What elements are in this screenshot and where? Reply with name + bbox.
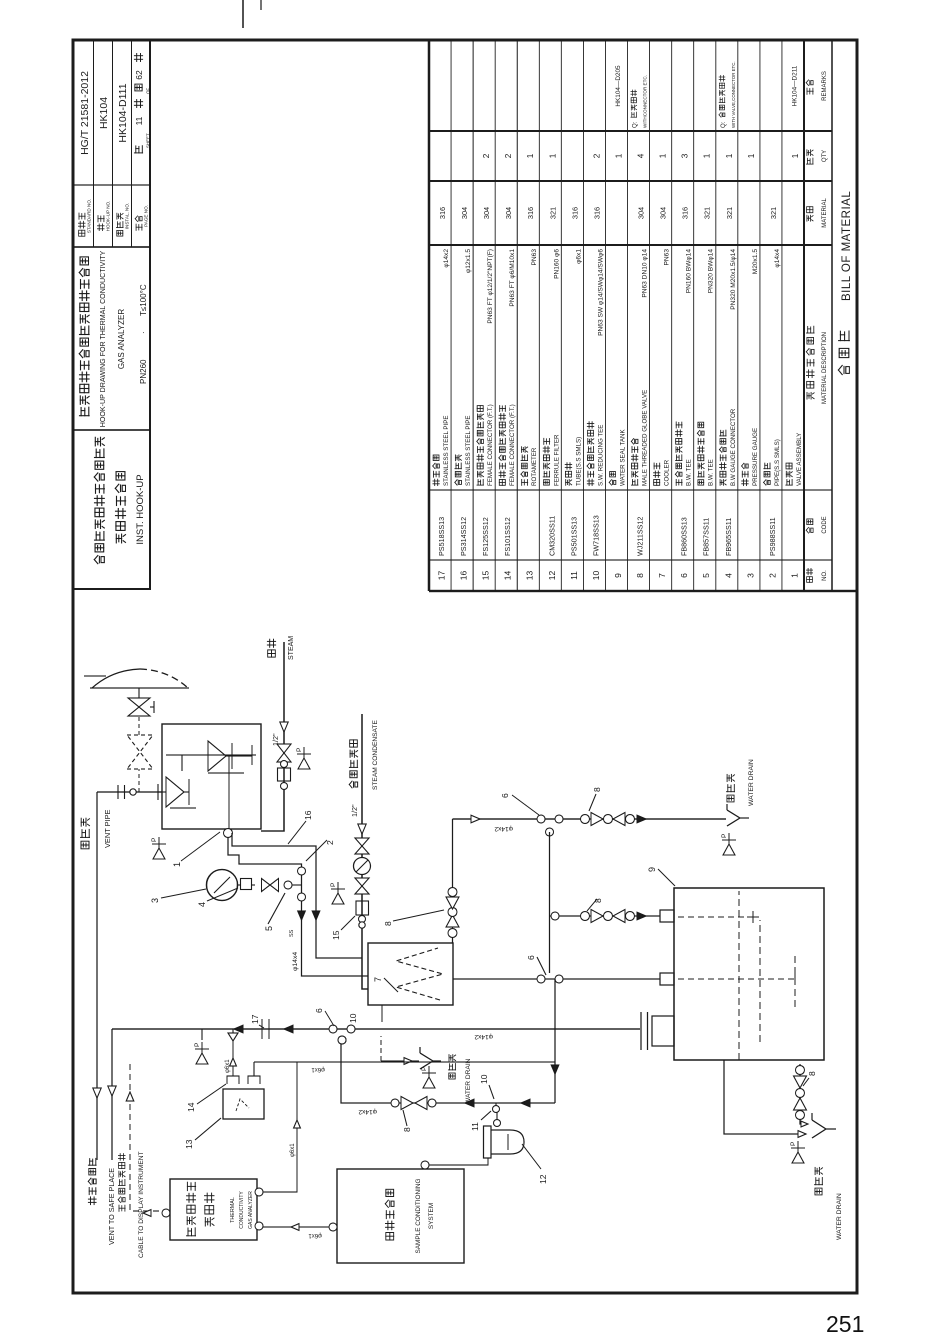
- drain funnel P on riser vent: [201, 1029, 203, 1040]
- BOM row item 2: [764, 207, 781, 578]
- svg-text:P: P: [151, 838, 158, 842]
- filter outlet stub 2: [495, 1103, 497, 1106]
- tee cluster on riser (items 6/10): [329, 1025, 355, 1044]
- svg-text:5: 5: [264, 926, 274, 931]
- vent stack dashed stub to riser: [138, 769, 140, 792]
- rotameter float mark: [236, 1099, 249, 1111]
- riser flange to tank: [641, 1012, 648, 1050]
- cooler box (item 7): [368, 943, 453, 1005]
- label 17 with leader: [250, 1014, 264, 1028]
- BOM row item 11: [565, 207, 582, 580]
- svg-text:WITH VALVE,CONNECTOR ETC.: WITH VALVE,CONNECTOR ETC.: [731, 61, 736, 128]
- svg-text:P: P: [721, 834, 728, 838]
- svg-text:FB857SS11: FB857SS11: [702, 518, 711, 556]
- label: standard no (biaozhunhao): [78, 213, 85, 236]
- svg-text:321: 321: [769, 207, 778, 219]
- svg-text:1: 1: [659, 153, 668, 158]
- vent stack dashed pipe outer: [138, 688, 140, 698]
- pipe from valve assembly to cooler (phi14x4 line): [228, 837, 368, 976]
- svg-text:9: 9: [613, 573, 623, 578]
- label 15 with leader: [331, 916, 355, 940]
- pressure gauge (item 3): [207, 870, 238, 901]
- svg-text:MALE THREADED GLOBE VALVE: MALE THREADED GLOBE VALVE: [642, 390, 649, 486]
- svg-text:B.W. TEE: B.W. TEE: [708, 459, 715, 486]
- svg-text:PAGE NO.: PAGE NO.: [144, 205, 149, 227]
- filter riser pipe phi14x2: [341, 1044, 555, 1103]
- svg-text:FS101SS12: FS101SS12: [503, 517, 512, 556]
- svg-text:PN160 BWφ14: PN160 BWφ14: [686, 249, 693, 294]
- BOM header: code (daima CODE): [806, 516, 828, 533]
- tank internal dip tube dashed (cooler line): [678, 973, 795, 985]
- svg-text:SAMPLE CONDITIONING: SAMPLE CONDITIONING: [415, 1179, 422, 1254]
- tank nozzle for cooler line: [660, 973, 674, 985]
- label 6 no.3 with leader: [314, 1008, 334, 1026]
- svg-text:REMARKS: REMARKS: [822, 71, 828, 101]
- flow arrow on phi14x4 line: [298, 911, 306, 920]
- svg-text:HG/T 21581-2012: HG/T 21581-2012: [79, 71, 91, 155]
- svg-text:FEMALE CONNECTOR (F.T.): FEMALE CONNECTOR (F.T.): [487, 404, 494, 486]
- svg-text:316: 316: [570, 207, 579, 219]
- line 16 path from valve assembly: [232, 833, 362, 958]
- svg-text:φ12x1.5: φ12x1.5: [465, 249, 472, 273]
- svg-text:φ6x1: φ6x1: [575, 249, 582, 264]
- svg-text:11: 11: [569, 571, 579, 580]
- tank fill branch pipe: [550, 915, 661, 917]
- cable port circle on analyzer: [162, 1209, 170, 1217]
- svg-text:φ6x1: φ6x1: [308, 1232, 322, 1238]
- svg-text:1: 1: [703, 153, 712, 158]
- svg-text:316: 316: [438, 207, 447, 219]
- flow arrows on filter riser: [465, 1099, 474, 1107]
- svg-text:12: 12: [538, 1174, 548, 1184]
- rotameter inlet pipe: [253, 1062, 255, 1076]
- collection pipe to tank line: [554, 979, 556, 1103]
- title block: standard name (zhonghua renmin gongheguo hangye biaozhun): [94, 437, 104, 563]
- filter outlet stub: [496, 1112, 498, 1120]
- BOM row item 15: [477, 153, 494, 580]
- svg-text:φ6x1: φ6x1: [290, 1143, 296, 1157]
- BOM row item 9: [609, 65, 626, 578]
- vent to safe place label (fangkong zhi anquanchu): [88, 1158, 96, 1204]
- svg-text:Q:: Q:: [633, 121, 639, 128]
- BOM header: remarks (beizhu REMARKS): [806, 71, 828, 101]
- svg-text:10: 10: [479, 1074, 489, 1084]
- gauge branch circle: [284, 881, 292, 889]
- svg-text:PS988SS11: PS988SS11: [768, 517, 777, 556]
- svg-text:1: 1: [526, 153, 535, 158]
- svg-text:GAS ANALYZER: GAS ANALYZER: [248, 1191, 254, 1229]
- svg-text:4: 4: [197, 902, 207, 907]
- svg-text:13: 13: [525, 571, 535, 581]
- tank internal short dashed line: [794, 952, 796, 1007]
- steam condensate label (zhengqi lengningye): [349, 740, 357, 788]
- svg-text:QTY: QTY: [822, 150, 828, 162]
- label: install no (anzhuanghao): [116, 213, 123, 236]
- drain header pipe down to water drain: [453, 818, 727, 820]
- svg-text:φ14x2: φ14x2: [358, 1108, 377, 1115]
- svg-text:62: 62: [134, 70, 144, 80]
- label 6 no.2 with leader: [526, 955, 546, 975]
- svg-text:PN160 φ6: PN160 φ6: [553, 249, 560, 279]
- pipe cooler outlet to water seal tank: [453, 978, 660, 980]
- union circles on phi14x4 line: [298, 867, 306, 901]
- tee circle at riser top: [338, 1036, 346, 1044]
- rotameter (item 13): [223, 1089, 264, 1119]
- BOM row item 3: [742, 153, 759, 578]
- svg-text:13: 13: [184, 1139, 194, 1149]
- svg-text:14: 14: [186, 1102, 196, 1112]
- registration tick marks at sheet top: [243, 0, 261, 28]
- svg-text:1: 1: [725, 153, 734, 158]
- svg-text:HOOK-UP NO.: HOOK-UP NO.: [106, 201, 111, 232]
- drain funnel P near valve assembly: [152, 837, 166, 859]
- svg-text:CONDUCTIVITY: CONDUCTIVITY: [239, 1191, 245, 1229]
- tee fitting circles on drain header (item 6): [537, 815, 563, 836]
- label 8 no.5 with leader: [402, 1110, 412, 1132]
- union circles with tee on tank line (item 6): [537, 975, 563, 983]
- analyzer exhaust pipe: [263, 1062, 297, 1192]
- svg-text:304: 304: [460, 207, 469, 219]
- tank internal dip tube dashed (fill branch): [678, 911, 759, 923]
- svg-text:T≤100°C: T≤100°C: [139, 284, 148, 316]
- svg-text:8: 8: [402, 1127, 412, 1132]
- vent stack dashed pipe: [138, 716, 140, 735]
- reducer at riser tee (item 10): [228, 1033, 238, 1041]
- svg-text:8: 8: [383, 921, 393, 926]
- feed flow arrow: [291, 1224, 299, 1231]
- svg-text:251: 251: [826, 1311, 864, 1337]
- svg-text:15: 15: [481, 571, 491, 581]
- svg-text:PS314SS12: PS314SS12: [459, 517, 468, 556]
- BOM header: material description (cailiao mingcheng ji guige): [806, 326, 828, 404]
- label 5 with leader: [264, 893, 285, 931]
- valve assembly internal valve symbol left: [158, 777, 189, 807]
- tank drain arrow 2: [801, 1121, 808, 1127]
- svg-text:321: 321: [548, 207, 557, 219]
- svg-text:φ14x2: φ14x2: [494, 825, 513, 832]
- analyzer name chinese line1 (redaoshi qiti): [187, 1182, 196, 1236]
- label 14 with leader: [186, 1084, 226, 1112]
- svg-text:OF: OF: [146, 88, 151, 94]
- svg-text:TUBE(S.S SMLS): TUBE(S.S SMLS): [575, 437, 582, 486]
- BOM row item 8: [631, 75, 649, 578]
- svg-text:2: 2: [592, 153, 601, 158]
- steam line valve: [277, 744, 291, 762]
- svg-text:PS501SS13: PS501SS13: [569, 517, 578, 556]
- label 11 with leader: [470, 1111, 491, 1131]
- label: page no (yehao): [135, 216, 142, 231]
- conditioning top port circle: [329, 1223, 337, 1231]
- svg-text:2: 2: [767, 573, 777, 578]
- value: sheet 11 of 62: [134, 146, 142, 153]
- svg-text:φ14x2: φ14x2: [443, 249, 450, 268]
- label 4 with leader: [197, 888, 238, 907]
- line cooler to drain header: [452, 819, 454, 943]
- svg-text:φ14x4: φ14x4: [292, 952, 299, 971]
- svg-text:INST. HOOK-UP: INST. HOOK-UP: [135, 474, 146, 544]
- label: hook-up no (tuhao): [97, 216, 104, 231]
- svg-text:SHEET: SHEET: [146, 133, 151, 148]
- valve item 8 no.3 on tank fill branch: [581, 910, 635, 923]
- tank drain Y funnel: [812, 1113, 836, 1138]
- svg-text:PN260: PN260: [139, 359, 148, 384]
- svg-text:BILL OF MATERIAL: BILL OF MATERIAL: [841, 191, 853, 301]
- label 8 no.1 with leader: [383, 910, 444, 926]
- gauge root valve (item 5): [262, 879, 279, 892]
- svg-text:VENT TO SAFE PLACE: VENT TO SAFE PLACE: [107, 1168, 116, 1245]
- steam label (zhengqi): [267, 639, 275, 657]
- water seal tank (item 9): [674, 888, 824, 1060]
- rotameter connector fitting lower (item 14): [248, 1076, 260, 1084]
- svg-text:HK104—D211: HK104—D211: [791, 65, 798, 106]
- svg-text:7: 7: [657, 573, 667, 578]
- BOM table column lines: [429, 559, 832, 561]
- svg-text:PIPE(S.S SMLS): PIPE(S.S SMLS): [774, 439, 781, 486]
- svg-text:COOLER: COOLER: [664, 459, 671, 486]
- label 16 with leader: [288, 810, 313, 844]
- conditioning side port circle: [421, 1161, 429, 1169]
- svg-text:FB965SS11: FB965SS11: [724, 518, 733, 556]
- cooler drain dashed continuation: [380, 1036, 382, 1061]
- svg-text:VENT PIPE: VENT PIPE: [103, 809, 112, 848]
- analyzer port circles: [255, 1188, 263, 1230]
- svg-text:2: 2: [482, 153, 491, 158]
- tank drain arrow: [798, 1131, 806, 1138]
- svg-text:9: 9: [647, 867, 657, 872]
- svg-text:φ6x1: φ6x1: [225, 1059, 231, 1073]
- flow arrow on riser upper: [234, 1025, 243, 1033]
- svg-text:STANDARD NO.: STANDARD NO.: [87, 199, 92, 233]
- tank drain valved pipe: [800, 1064, 806, 1124]
- svg-text:P: P: [790, 1142, 797, 1146]
- BOM header: item no (jianhao NO.): [806, 568, 828, 582]
- BOM row item 1: [786, 65, 803, 578]
- BOM row item 4: [719, 61, 737, 577]
- BOM title: cailiao biao: [838, 331, 849, 375]
- svg-text:φ6x1: φ6x1: [311, 1066, 325, 1072]
- vent stack dashed valve: [127, 735, 153, 769]
- rotated landscape sheet: [0, 0, 1, 1]
- rotameter connector fitting upper (item 14): [227, 1076, 239, 1084]
- flow arrow on riser lower: [284, 1025, 293, 1033]
- flow arrow solid on drain header: [637, 815, 646, 823]
- BOM table row lines: [450, 40, 452, 591]
- BOM table outer left edge: [429, 590, 857, 592]
- BOM row item 6: [675, 153, 692, 578]
- vent stack valve (cross): [128, 698, 154, 716]
- svg-text:16: 16: [303, 810, 313, 820]
- svg-text:HK104-D111: HK104-D111: [117, 83, 129, 142]
- svg-text:10: 10: [348, 1013, 358, 1023]
- steam supply line: [261, 642, 284, 831]
- conditioning name chinese (yuchuli xitong): [385, 1189, 394, 1240]
- svg-text:304: 304: [659, 207, 668, 219]
- svg-text:B.W GAUGE CONNECTOR: B.W GAUGE CONNECTOR: [730, 408, 737, 486]
- svg-text:INSTAL. NO.: INSTAL. NO.: [125, 203, 130, 229]
- svg-text:P: P: [296, 748, 303, 752]
- svg-text:4: 4: [723, 573, 733, 578]
- svg-text:SYSTEM: SYSTEM: [428, 1203, 435, 1229]
- svg-text:STEAM CONDENSATE: STEAM CONDENSATE: [372, 720, 379, 790]
- ferrule filter internal line: [507, 1134, 509, 1150]
- circle above valve on filter riser: [391, 1099, 399, 1107]
- water drain label 1 (shui fangchu): [727, 774, 735, 802]
- svg-text:P: P: [330, 883, 337, 887]
- label 6 no.1 with leader: [500, 793, 539, 815]
- tank drain valves (item 8 no.4): [794, 1066, 807, 1120]
- svg-text:6: 6: [526, 955, 536, 960]
- svg-text:FERRULE FILTER: FERRULE FILTER: [553, 434, 560, 486]
- svg-text:GAS ANALYZER: GAS ANALYZER: [117, 309, 126, 370]
- svg-text:1/2": 1/2": [350, 804, 359, 817]
- BOM header row divider: [803, 40, 805, 591]
- svg-text:2: 2: [504, 153, 513, 158]
- svg-text:14: 14: [503, 571, 513, 581]
- tank nozzle for riser: [652, 1016, 674, 1046]
- svg-text:1: 1: [172, 862, 182, 867]
- valve item 8 no.5 on filter riser: [401, 1097, 436, 1110]
- sample feed pipe conditioning to analyzer: [263, 1226, 329, 1228]
- svg-text:12: 12: [547, 571, 557, 581]
- svg-text:8: 8: [807, 1071, 817, 1076]
- svg-text:3: 3: [745, 573, 755, 578]
- condensate sight glass circle: [354, 858, 371, 875]
- svg-text:THERMAL: THERMAL: [230, 1197, 236, 1223]
- BOM header: qty (shuliang QTY): [806, 150, 828, 164]
- label 9 with leader: [647, 867, 675, 886]
- svg-text:304: 304: [637, 207, 646, 219]
- svg-text:HK104: HK104: [98, 97, 110, 129]
- BOM table top edge: [428, 40, 430, 591]
- branch pipe between drain header and tank line: [549, 832, 551, 973]
- svg-text:7: 7: [373, 977, 383, 982]
- label 8 no.2 with leader: [589, 787, 602, 811]
- svg-text:6: 6: [500, 793, 510, 798]
- cable to display instrument dashed line: [130, 1064, 166, 1211]
- svg-text:1: 1: [747, 153, 756, 158]
- cable label (dianlan yinzhi xianshi yibiao): [118, 1154, 125, 1212]
- svg-text:316: 316: [592, 207, 601, 219]
- label 8 no.3 with leader: [587, 898, 603, 911]
- condensate valve 2: [355, 878, 369, 894]
- label 7 with leader: [373, 977, 398, 992]
- svg-text:316: 316: [526, 207, 535, 219]
- cooler coil zigzag: [396, 948, 443, 1000]
- svg-text:φ14x4: φ14x4: [774, 249, 781, 268]
- vent line from water seal: [111, 1029, 113, 1160]
- BOM row item 14: [499, 153, 516, 580]
- title block outline: [73, 40, 150, 589]
- title block divider lines: [73, 429, 150, 431]
- analyzer name chinese line2 (fenxiqi): [205, 1193, 215, 1226]
- svg-text:WATER DRAIN: WATER DRAIN: [836, 1193, 843, 1240]
- svg-text:P: P: [421, 1067, 428, 1071]
- cooler drain down pipe: [381, 1060, 419, 1062]
- svg-text:S.W. REDUCING TEE: S.W. REDUCING TEE: [597, 425, 604, 486]
- svg-text:WATER DRAIN: WATER DRAIN: [465, 1058, 472, 1104]
- reducer stub: [232, 1029, 234, 1033]
- svg-text:1: 1: [614, 153, 623, 158]
- vent pipe label (fangkongguan): [81, 818, 90, 849]
- tank internal water level line partial: [759, 920, 761, 1042]
- svg-text:·: ·: [139, 331, 148, 334]
- rotameter outlet pipe to riser: [232, 1041, 234, 1076]
- union ticks on riser (item 17): [262, 1019, 269, 1039]
- svg-text:CODE: CODE: [822, 516, 828, 533]
- rain cap baseline: [90, 687, 189, 689]
- svg-text:11: 11: [134, 116, 144, 125]
- svg-text:8: 8: [592, 787, 602, 792]
- svg-text:Q:: Q:: [721, 121, 727, 128]
- steam flow arrow 1/2 inch: [280, 722, 288, 732]
- thermal conductivity gas analyzer box: [170, 1179, 257, 1240]
- svg-text:8: 8: [635, 573, 645, 578]
- svg-text:15: 15: [331, 930, 341, 940]
- svg-text:FEMALE CONNECTOR (F.T.): FEMALE CONNECTOR (F.T.): [509, 404, 516, 486]
- condensate ferrule fitting item 15: [356, 901, 369, 928]
- rotameter outlet arrow: [230, 1058, 237, 1066]
- svg-text:STAINLESS STEEL PIPE: STAINLESS STEEL PIPE: [465, 416, 472, 487]
- gauge stem lines: [238, 884, 255, 886]
- vent riser from valve assembly: [97, 791, 162, 793]
- tee circle on branch: [551, 912, 559, 920]
- svg-text:1: 1: [791, 153, 800, 158]
- ferrule filter bell: [491, 1130, 524, 1154]
- svg-text:PN63 FT φ6/M10x1: PN63 FT φ6/M10x1: [509, 249, 516, 307]
- vent line to safe place upper: [96, 792, 98, 1160]
- svg-text:HOOK-UP DRAWING FOR THERMAL CO: HOOK-UP DRAWING FOR THERMAL CONDUCTIVITY: [99, 250, 107, 427]
- svg-text:16: 16: [459, 571, 469, 581]
- BOM row item 5: [697, 153, 714, 578]
- svg-text:5: 5: [701, 573, 711, 578]
- svg-text:FS125SS12: FS125SS12: [481, 517, 490, 556]
- label 10 no.2 with leader: [479, 1074, 494, 1099]
- valve assembly internal valve symbol right: [208, 741, 252, 771]
- svg-text:1: 1: [548, 153, 557, 158]
- svg-text:FW718SS13: FW718SS13: [591, 515, 600, 556]
- steam line ferrule fitting: [278, 761, 291, 790]
- BOM header: material (cailiao MATERIAL): [807, 198, 828, 228]
- svg-text:SS: SS: [289, 929, 295, 937]
- flow arrow on vent line upper: [93, 1088, 101, 1098]
- svg-text:P: P: [194, 1043, 201, 1047]
- svg-text:CM320SS11: CM320SS11: [547, 516, 556, 556]
- drain funnel P below steam line: [297, 747, 311, 769]
- svg-text:PN63 FT φ12/1/2"NPT(F): PN63 FT φ12/1/2"NPT(F): [487, 249, 494, 324]
- valve item 8 no.2 on drain header: [581, 813, 635, 826]
- tank drain L pipe: [724, 1060, 806, 1134]
- BOM row item 17: [433, 207, 450, 580]
- svg-text:PN320 BWφ14: PN320 BWφ14: [708, 249, 715, 294]
- svg-text:1: 1: [789, 573, 799, 578]
- BOM title row divider: [831, 40, 833, 591]
- cable arrowhead at analyzer: [143, 1210, 151, 1217]
- exhaust downcomer pipe: [254, 1061, 555, 1063]
- union circle on vent riser: [130, 789, 136, 795]
- BOM row item 16: [455, 207, 472, 580]
- svg-text:11: 11: [470, 1122, 480, 1131]
- svg-text:WATER SEAL TANK: WATER SEAL TANK: [619, 429, 626, 486]
- label 8 no.4 with leader: [803, 1071, 817, 1086]
- svg-text:CABLE TO DISPLAY INSTRUMENT: CABLE TO DISPLAY INSTRUMENT: [138, 1151, 145, 1258]
- svg-text:STAINLESS STEEL PIPE: STAINLESS STEEL PIPE: [443, 416, 450, 487]
- cooler drain Y funnel: [420, 1047, 441, 1069]
- svg-text:316: 316: [681, 207, 690, 219]
- BOM row item 12: [543, 153, 560, 580]
- gauge branch to main line: [292, 884, 302, 886]
- filter outlet circle: [494, 1120, 501, 1127]
- BOM row item 7: [654, 153, 671, 578]
